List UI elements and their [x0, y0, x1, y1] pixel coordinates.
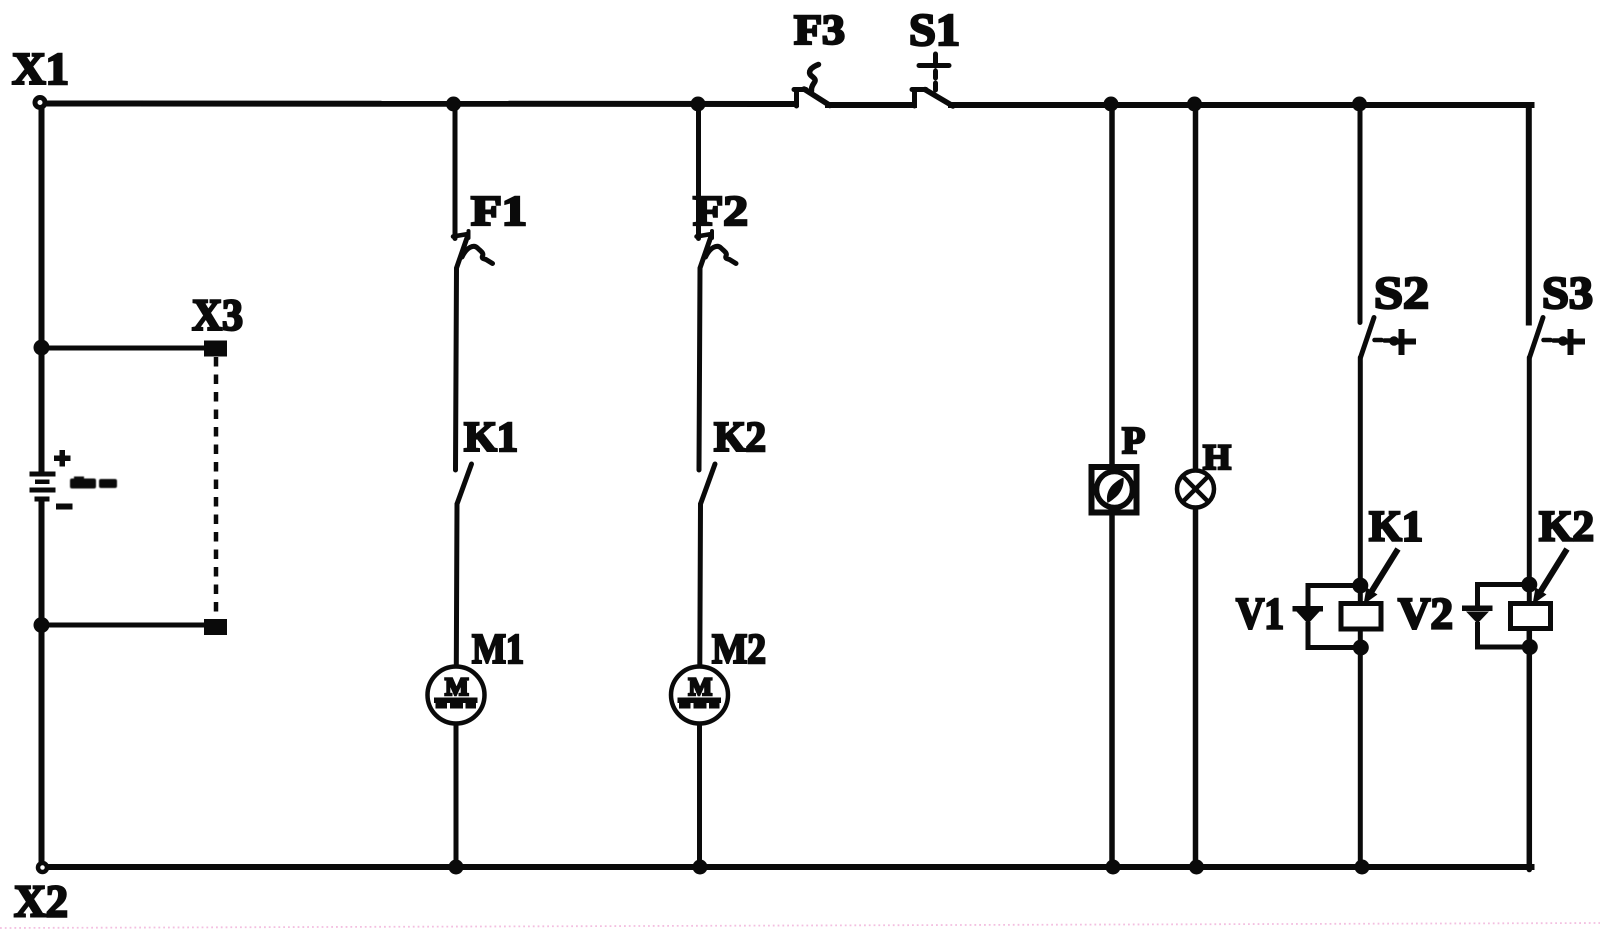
svg-text:V1: V1 — [1236, 589, 1284, 638]
svg-text:S3: S3 — [1542, 268, 1593, 318]
svg-text:S1: S1 — [909, 5, 960, 55]
svg-text:K2: K2 — [1539, 504, 1594, 551]
svg-text:S2: S2 — [1374, 268, 1429, 318]
svg-text:F3: F3 — [794, 8, 845, 54]
svg-text:P: P — [1122, 420, 1145, 462]
svg-text:K1: K1 — [1369, 504, 1423, 551]
svg-text:V2: V2 — [1398, 589, 1453, 638]
svg-text:M: M — [689, 674, 713, 701]
svg-text:M2: M2 — [712, 627, 766, 673]
svg-text:F2: F2 — [693, 189, 748, 235]
svg-text:F1: F1 — [471, 189, 527, 235]
svg-text:M: M — [445, 674, 469, 701]
svg-text:K1: K1 — [464, 415, 518, 461]
svg-text:X2: X2 — [14, 877, 68, 927]
svg-text:H: H — [1203, 437, 1231, 477]
svg-text:X3: X3 — [192, 291, 243, 340]
svg-text:M1: M1 — [472, 627, 524, 673]
svg-text:K2: K2 — [714, 415, 766, 461]
svg-text:X1: X1 — [12, 44, 69, 94]
